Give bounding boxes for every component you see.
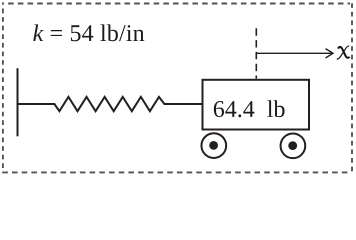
coordinate label x: [337, 46, 350, 59]
right wheel hub dot: [288, 141, 297, 150]
x axis arrow: [256, 49, 333, 58]
mass block (cart body): [203, 80, 310, 130]
spring stiffness label k = 54 lb/in: [33, 24, 144, 41]
left wheel hub dot: [209, 141, 218, 150]
weight label 64.4 lb: [214, 100, 285, 117]
right wheel: [281, 133, 306, 158]
equilibrium datum dashed line: [255, 28, 257, 79]
spring k: [18, 97, 203, 111]
left wheel: [201, 133, 226, 158]
wall: [17, 68, 19, 136]
